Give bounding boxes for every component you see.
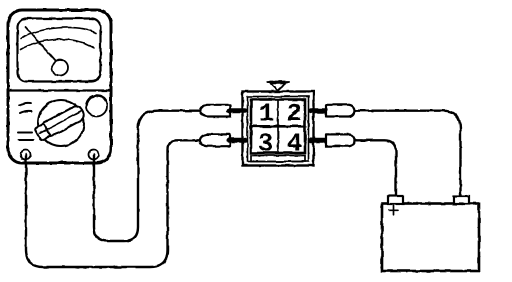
meter terminal left [21, 150, 31, 160]
probe capsule pin 2 [326, 105, 355, 117]
connector bottom lip [251, 156, 305, 162]
connector top marker triangle [271, 83, 286, 90]
probe capsule pin 1 [200, 105, 230, 117]
meter panel divider [9, 89, 110, 91]
dial knob [34, 104, 86, 141]
dial tick marks [18, 103, 33, 140]
meter needle pivot [52, 60, 68, 76]
battery plus sign [389, 206, 398, 215]
svg-text:3: 3 [258, 129, 274, 159]
multimeter body [8, 10, 111, 163]
battery body [382, 204, 479, 272]
stub pin 3 [229, 138, 245, 143]
meter scale arc lower [21, 39, 95, 49]
wire: pin 2 to battery positive post [355, 111, 461, 196]
stub pin 2 [311, 108, 327, 113]
wire: meter right terminal to pin 1 (inner loop) [94, 111, 200, 241]
probe capsule pin 3 [200, 134, 230, 146]
connector pin grid [251, 100, 305, 154]
meter scale arc upper [21, 28, 96, 39]
stub pin 4 [311, 138, 327, 143]
rotary dial [38, 100, 84, 146]
svg-text:4: 4 [287, 129, 303, 159]
wire: meter left terminal to pin 3 (outer loop) [26, 140, 200, 267]
meter needle [26, 27, 56, 61]
connector outer shell [243, 92, 314, 166]
battery post left [388, 196, 403, 204]
meter screen [18, 19, 101, 82]
stub pin 1 [229, 108, 245, 113]
meter terminal right [89, 150, 99, 160]
battery post right [454, 196, 469, 204]
svg-text:2: 2 [286, 99, 302, 129]
wire: pin 4 to battery negative post [355, 140, 397, 196]
probe capsule pin 4 [326, 134, 355, 146]
connector top marker bar [268, 81, 290, 83]
indicator lamp circle [86, 96, 107, 117]
svg-text:1: 1 [259, 99, 275, 129]
connector inner shell [248, 97, 309, 162]
